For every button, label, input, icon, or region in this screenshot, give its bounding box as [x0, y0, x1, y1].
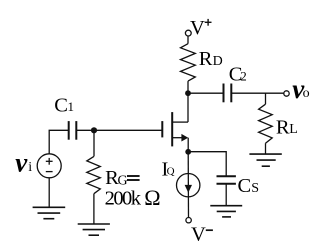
source vi — [37, 154, 61, 178]
wire — [49, 130, 68, 154]
capacitor C2 — [224, 84, 232, 103]
wire — [187, 36, 189, 44]
label V+ — [190, 17, 212, 39]
label vo — [292, 74, 309, 104]
ground vi — [33, 207, 66, 218]
label RD — [199, 48, 223, 70]
wire — [265, 143, 267, 154]
capacitor C1 — [69, 121, 77, 140]
node gate — [91, 127, 97, 133]
label V- — [191, 223, 213, 245]
svg-text:200k: 200k — [105, 188, 142, 210]
terminal V- — [186, 218, 191, 223]
label RL — [276, 116, 298, 138]
transistor Q1 gate bar — [161, 121, 163, 137]
wire — [188, 152, 226, 177]
svg-text:R: R — [199, 48, 213, 70]
svg-text:1: 1 — [68, 99, 75, 114]
resistor RG — [87, 156, 101, 193]
wire — [265, 93, 267, 104]
resistor RL — [259, 104, 273, 143]
label IQ — [162, 159, 175, 181]
node source — [185, 149, 191, 155]
svg-text:S: S — [251, 181, 259, 196]
transistor Q1 channel bar — [171, 112, 173, 146]
transistor Q1 source stub with arrow — [172, 137, 182, 139]
wire — [231, 92, 284, 94]
wire — [93, 130, 95, 156]
label RG — [105, 167, 140, 189]
svg-text:D: D — [213, 54, 223, 69]
svg-text:G: G — [118, 174, 128, 189]
label CS — [238, 175, 259, 197]
terminal V+ — [185, 30, 191, 36]
svg-text:L: L — [289, 122, 298, 137]
wire — [48, 178, 50, 208]
label RG value — [105, 185, 161, 210]
ground RL — [249, 154, 281, 166]
wire — [93, 194, 95, 224]
wire — [187, 138, 189, 152]
wire — [188, 92, 224, 94]
ground RG — [78, 224, 110, 235]
wire — [187, 152, 189, 218]
transistor Q1 drain stub — [172, 121, 188, 123]
label C1 — [54, 95, 74, 117]
svg-text:i: i — [28, 160, 32, 175]
svg-text:Q: Q — [167, 165, 175, 177]
resistor RD — [181, 44, 196, 81]
svg-text:Ω: Ω — [144, 185, 160, 210]
svg-text:o: o — [303, 86, 310, 101]
ground CS — [210, 206, 242, 217]
node drain — [185, 90, 191, 96]
svg-text:R: R — [276, 116, 290, 138]
terminal vo — [284, 91, 289, 96]
svg-text:2: 2 — [240, 68, 247, 83]
svg-text:C: C — [238, 175, 252, 197]
svg-text:V: V — [190, 17, 205, 39]
wire — [187, 81, 189, 122]
svg-text:C: C — [54, 95, 68, 117]
wire — [225, 184, 227, 206]
svg-text:v: v — [15, 148, 28, 178]
capacitor CS — [217, 176, 236, 184]
svg-text:V: V — [191, 223, 206, 245]
current source IQ — [177, 174, 200, 197]
label C2 — [229, 63, 247, 85]
label vi — [15, 148, 32, 178]
wire gate — [76, 129, 162, 131]
